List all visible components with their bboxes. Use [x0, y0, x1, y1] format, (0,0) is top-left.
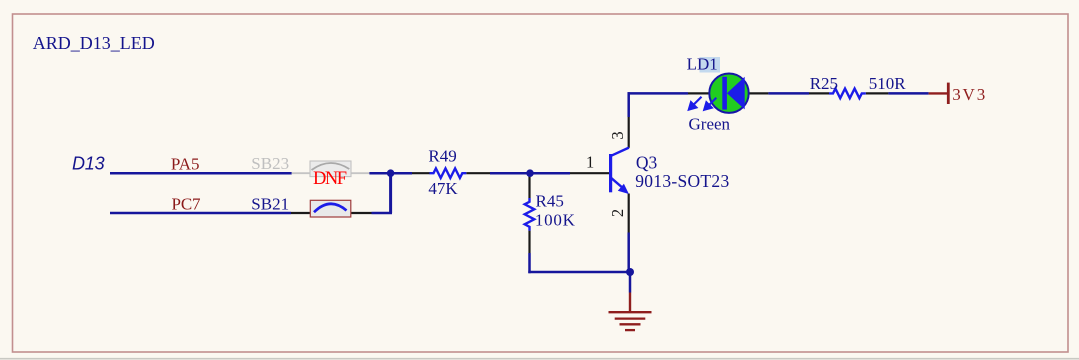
svg-text:LD1: LD1: [687, 54, 718, 73]
svg-text:3V3: 3V3: [952, 85, 985, 104]
svg-text:47K: 47K: [428, 179, 458, 198]
svg-text:SB23: SB23: [251, 154, 289, 173]
svg-text:Green: Green: [689, 115, 731, 134]
svg-text:1: 1: [586, 152, 594, 171]
svg-text:R49: R49: [428, 146, 456, 165]
svg-text:R45: R45: [536, 191, 564, 210]
svg-text:SB21: SB21: [251, 195, 289, 214]
svg-text:510R: 510R: [869, 74, 907, 93]
svg-text:Q3: Q3: [636, 153, 658, 173]
svg-text:DNF: DNF: [313, 169, 347, 189]
svg-text:ARD_D13_LED: ARD_D13_LED: [33, 33, 155, 53]
svg-text:PC7: PC7: [172, 195, 202, 214]
svg-text:100K: 100K: [535, 211, 576, 230]
svg-text:R25: R25: [810, 74, 838, 93]
svg-text:3: 3: [608, 131, 627, 139]
svg-text:D13: D13: [72, 154, 105, 174]
svg-text:9013-SOT23: 9013-SOT23: [635, 171, 729, 191]
svg-text:2: 2: [608, 209, 627, 217]
svg-text:PA5: PA5: [171, 154, 200, 173]
